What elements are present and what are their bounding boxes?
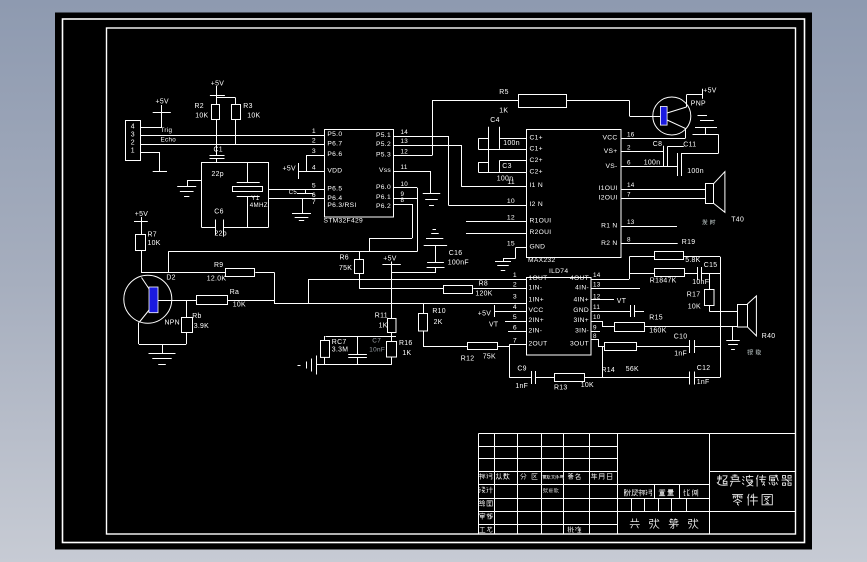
svg-text:C2+: C2+ <box>530 157 543 164</box>
svg-text:+5V: +5V <box>283 166 296 173</box>
svg-text:5: 5 <box>312 182 316 189</box>
svg-text:4: 4 <box>131 123 135 130</box>
svg-text:I1 N: I1 N <box>530 182 543 189</box>
svg-text:VS+: VS+ <box>604 148 618 155</box>
svg-text:STM32F429: STM32F429 <box>324 217 364 224</box>
svg-text:100n: 100n <box>503 140 520 147</box>
svg-text:10: 10 <box>401 181 409 188</box>
svg-text:P5.1: P5.1 <box>376 132 391 139</box>
svg-text:4OUT: 4OUT <box>570 275 589 282</box>
svg-text:3: 3 <box>513 293 517 300</box>
svg-text:8: 8 <box>627 237 631 244</box>
svg-text:2IN-: 2IN- <box>529 328 543 335</box>
svg-text:R1OUI: R1OUI <box>530 218 552 225</box>
svg-text:R3: R3 <box>243 103 252 110</box>
svg-text:R8: R8 <box>479 280 488 287</box>
svg-text:12: 12 <box>593 293 601 300</box>
svg-text:2: 2 <box>513 281 517 288</box>
svg-text:2K: 2K <box>434 319 443 326</box>
svg-text:1OUT: 1OUT <box>529 275 548 282</box>
svg-text:C10: C10 <box>674 334 688 341</box>
svg-text:P6.0: P6.0 <box>376 184 391 191</box>
svg-text:P6.2: P6.2 <box>376 203 391 210</box>
svg-text:GND: GND <box>530 244 546 251</box>
svg-text:2: 2 <box>312 138 316 145</box>
svg-text:7: 7 <box>513 337 517 344</box>
svg-text:6: 6 <box>627 160 631 167</box>
svg-text:1: 1 <box>513 272 517 279</box>
svg-text:11: 11 <box>401 164 408 171</box>
svg-text:C12: C12 <box>697 365 711 372</box>
svg-text:1nF: 1nF <box>515 383 528 390</box>
svg-text:C6: C6 <box>214 208 223 215</box>
svg-text:10nF: 10nF <box>369 346 385 353</box>
svg-text:14: 14 <box>593 272 601 279</box>
svg-text:Rb: Rb <box>192 313 201 320</box>
svg-text:3IN-: 3IN- <box>575 328 589 335</box>
svg-text:6: 6 <box>513 324 517 331</box>
svg-text:C8: C8 <box>653 141 662 148</box>
svg-text:R15: R15 <box>649 315 663 322</box>
svg-text:4IN-: 4IN- <box>575 285 589 292</box>
svg-text:+5V: +5V <box>211 80 224 87</box>
svg-text:GND: GND <box>573 307 589 314</box>
svg-text:P5.2: P5.2 <box>376 141 391 148</box>
svg-text:8: 8 <box>593 333 597 340</box>
svg-text:13: 13 <box>627 219 635 226</box>
svg-text:C7: C7 <box>372 338 381 345</box>
svg-text:Echo: Echo <box>161 137 177 144</box>
svg-text:Ra: Ra <box>230 289 239 296</box>
svg-text:R7: R7 <box>148 232 157 239</box>
svg-text:14: 14 <box>627 182 635 189</box>
svg-text:10: 10 <box>593 314 601 321</box>
svg-text:R9: R9 <box>214 262 223 269</box>
svg-text:16: 16 <box>627 131 635 138</box>
svg-text:10K: 10K <box>247 113 260 120</box>
svg-text:I2 N: I2 N <box>530 201 543 208</box>
svg-text:P6.7: P6.7 <box>327 141 342 148</box>
svg-text:100n: 100n <box>644 159 661 166</box>
svg-text:+5V: +5V <box>478 311 491 318</box>
svg-text:1nF: 1nF <box>674 350 687 357</box>
svg-text:1K: 1K <box>402 350 411 357</box>
svg-text:MAX232: MAX232 <box>528 257 555 264</box>
svg-text:C11: C11 <box>683 142 696 149</box>
svg-text:C16: C16 <box>449 250 463 257</box>
svg-text:22p: 22p <box>215 230 227 237</box>
svg-text:14: 14 <box>401 129 409 136</box>
svg-text:P5.0: P5.0 <box>327 131 342 138</box>
svg-text:R2OUI: R2OUI <box>530 229 552 236</box>
svg-text:75K: 75K <box>339 265 352 272</box>
svg-text:ILD74: ILD74 <box>549 268 568 275</box>
svg-text:100n: 100n <box>687 168 704 175</box>
svg-text:+5V: +5V <box>135 211 148 218</box>
svg-text:1IN+: 1IN+ <box>529 297 545 304</box>
svg-text:10nF: 10nF <box>692 279 709 286</box>
svg-text:P6.3/RSI: P6.3/RSI <box>327 202 356 209</box>
svg-text:1K: 1K <box>499 108 508 115</box>
svg-text:+5V: +5V <box>703 88 716 95</box>
svg-text:C2+: C2+ <box>530 168 543 175</box>
svg-text:10K: 10K <box>233 302 246 309</box>
svg-text:R2: R2 <box>195 103 204 110</box>
svg-text:2: 2 <box>627 145 631 152</box>
svg-text:R1847K: R1847K <box>650 278 677 285</box>
svg-text:9: 9 <box>593 324 597 331</box>
svg-text:3: 3 <box>312 148 316 155</box>
svg-text:11: 11 <box>507 179 515 186</box>
svg-text:R14: R14 <box>602 367 616 374</box>
svg-text:R19: R19 <box>682 239 696 246</box>
svg-text:I2OUI: I2OUI <box>599 195 618 202</box>
svg-text:C1: C1 <box>214 146 223 153</box>
svg-text:I1OUI: I1OUI <box>599 185 618 192</box>
svg-text:2: 2 <box>131 140 135 147</box>
svg-text:75K: 75K <box>483 354 496 361</box>
svg-text:C4: C4 <box>490 117 499 124</box>
svg-text:VT: VT <box>617 298 627 305</box>
svg-text:VS-: VS- <box>605 163 617 170</box>
svg-text:13: 13 <box>401 138 409 145</box>
svg-text:C1+: C1+ <box>530 134 543 141</box>
svg-text:P6.4: P6.4 <box>327 195 342 202</box>
svg-text:12: 12 <box>401 149 409 156</box>
svg-text:PNP: PNP <box>691 101 706 108</box>
svg-text:5.8K: 5.8K <box>685 257 700 264</box>
svg-text:T40: T40 <box>731 217 744 224</box>
svg-text:C9: C9 <box>517 365 526 372</box>
svg-text:3IN+: 3IN+ <box>573 317 589 324</box>
svg-text:13: 13 <box>593 281 601 288</box>
svg-text:1K: 1K <box>379 323 388 330</box>
svg-text:12: 12 <box>507 214 515 221</box>
svg-text:1IN-: 1IN- <box>529 285 543 292</box>
svg-text:+5V: +5V <box>383 255 396 262</box>
svg-text:R12: R12 <box>461 356 475 363</box>
svg-text:R11: R11 <box>375 312 388 319</box>
svg-text:VCC: VCC <box>602 135 617 142</box>
svg-text:R6: R6 <box>340 255 349 262</box>
svg-text:12.0K: 12.0K <box>207 276 227 283</box>
svg-text:15: 15 <box>507 240 515 247</box>
svg-text:3.9K: 3.9K <box>194 323 209 330</box>
svg-text:3OUT: 3OUT <box>570 341 589 348</box>
svg-text:10: 10 <box>507 198 515 205</box>
svg-text:C5: C5 <box>289 190 298 196</box>
svg-text:160K: 160K <box>649 328 666 335</box>
svg-text:R2 N: R2 N <box>601 240 617 247</box>
svg-text:R17: R17 <box>687 291 701 298</box>
svg-text:3.3M: 3.3M <box>332 347 349 354</box>
svg-text:Vss: Vss <box>379 167 391 174</box>
svg-text:RC7: RC7 <box>332 339 347 346</box>
svg-text:2IN+: 2IN+ <box>529 317 545 324</box>
svg-text:+5V: +5V <box>156 98 169 105</box>
svg-text:4: 4 <box>312 165 316 172</box>
svg-text:C3: C3 <box>502 163 511 170</box>
svg-text:11: 11 <box>593 304 600 311</box>
svg-text:R16: R16 <box>399 340 413 347</box>
svg-text:3: 3 <box>131 131 135 138</box>
svg-text:56K: 56K <box>626 366 639 373</box>
svg-text:R10: R10 <box>432 308 446 315</box>
svg-text:VDD: VDD <box>327 168 342 175</box>
svg-text:8: 8 <box>401 197 405 204</box>
svg-text:6: 6 <box>312 192 316 199</box>
svg-text:10K: 10K <box>688 303 701 310</box>
svg-text:R1 N: R1 N <box>601 222 617 229</box>
svg-text:D2: D2 <box>166 275 175 282</box>
svg-text:Trig: Trig <box>161 127 173 134</box>
svg-text:5: 5 <box>513 314 517 321</box>
svg-text:4MHZ: 4MHZ <box>250 202 268 209</box>
svg-text:C1+: C1+ <box>530 146 543 153</box>
svg-text:R5: R5 <box>499 89 508 96</box>
svg-text:10K: 10K <box>148 240 161 247</box>
svg-text:4: 4 <box>513 304 517 311</box>
svg-text:7: 7 <box>312 199 316 206</box>
svg-text:2OUT: 2OUT <box>529 341 548 348</box>
svg-text:22p: 22p <box>212 171 224 178</box>
svg-text:P6.6: P6.6 <box>327 151 342 158</box>
svg-text:10K: 10K <box>581 382 594 389</box>
svg-text:P5.3: P5.3 <box>376 152 391 159</box>
svg-text:10K: 10K <box>195 113 208 120</box>
svg-text:VCC: VCC <box>529 307 544 314</box>
svg-text:1: 1 <box>131 148 135 155</box>
svg-text:100nF: 100nF <box>448 260 469 267</box>
svg-text:1nF: 1nF <box>697 379 710 386</box>
svg-text:C15: C15 <box>704 262 718 269</box>
svg-text:1: 1 <box>312 128 316 135</box>
svg-text:R13: R13 <box>554 385 568 392</box>
svg-text:120K: 120K <box>475 291 492 298</box>
svg-text:P6.1: P6.1 <box>376 194 391 201</box>
svg-text:R40: R40 <box>762 333 776 340</box>
svg-text:NPN: NPN <box>165 320 180 327</box>
svg-text:P6.5: P6.5 <box>327 186 342 193</box>
svg-text:4IN+: 4IN+ <box>573 297 589 304</box>
svg-text:7: 7 <box>627 191 631 198</box>
svg-text:VT: VT <box>489 321 499 328</box>
